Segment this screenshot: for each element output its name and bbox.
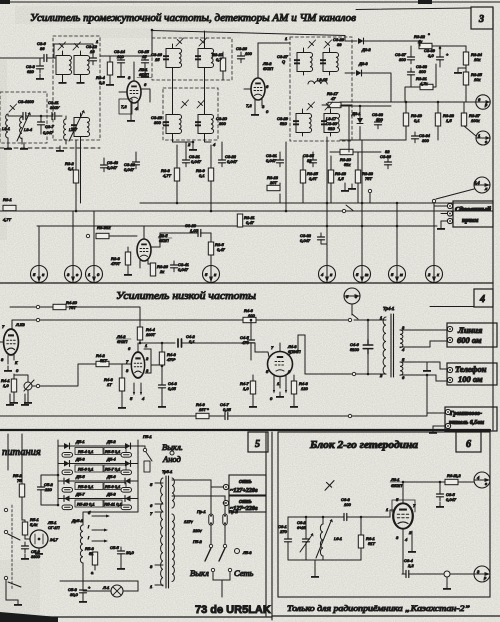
transformer right wires (172, 480, 225, 514)
wire (40, 364, 96, 386)
svg-text:0,05: 0,05 (168, 386, 177, 391)
svg-text:24,7: 24,7 (49, 537, 59, 542)
svg-text:С5-5: С5-5 (110, 545, 119, 550)
resistor R4-5 (159, 352, 164, 365)
capacitor C6-4 (402, 571, 413, 578)
svg-text:l: l (88, 524, 89, 529)
wire (411, 41, 466, 53)
resistor R4-6 (243, 317, 256, 322)
connector 4п (319, 266, 336, 283)
resistor oval (62, 470, 73, 475)
wire AM row (8, 114, 62, 144)
svg-text:1: 1 (285, 36, 287, 41)
resistor oval (62, 505, 73, 510)
tube pins (140, 226, 160, 268)
svg-text:0,1: 0,1 (414, 118, 420, 123)
bottom line (272, 615, 500, 617)
FM det can dashed box (290, 37, 352, 141)
svg-text:0,47: 0,47 (217, 247, 226, 252)
svg-text:10к: 10к (474, 77, 481, 82)
resistor R3-22 (419, 43, 432, 48)
svg-text:82: 82 (385, 149, 390, 154)
svg-text:ритель 6,5ом: ритель 6,5ом (448, 420, 484, 426)
tube V7 Л6-1 6Ж2П (393, 503, 413, 528)
svg-text:75: 75 (17, 478, 22, 483)
resistor R5-2 (19, 484, 24, 497)
wire (41, 475, 58, 505)
potentiometer (24, 382, 32, 390)
svg-text:300: 300 (219, 121, 226, 126)
connector 10 (86, 266, 103, 283)
svg-text:1: 1 (96, 39, 98, 44)
wire (256, 319, 348, 321)
resistor oval (121, 505, 132, 510)
connector 4г (474, 472, 490, 488)
tank L3-9 (163, 44, 182, 71)
svg-text:6+25: 6+25 (297, 525, 307, 530)
svg-text:1Т: 1Т (107, 382, 112, 387)
wire (32, 385, 36, 387)
svg-text:~127+220в: ~127+220в (230, 488, 258, 494)
svg-text:Д5-4: Д5-4 (106, 457, 116, 462)
wire (209, 415, 222, 417)
connector 5,4л (474, 177, 490, 193)
wire (364, 41, 421, 48)
svg-text:Усилитель низкой частоты: Усилитель низкой частоты (116, 291, 256, 302)
resistor R5-6 box (75, 465, 103, 472)
contact (432, 199, 435, 202)
svg-text:0,047: 0,047 (124, 167, 135, 172)
wire (83, 512, 138, 581)
grid bus (288, 516, 341, 518)
capacitor C5-2 (38, 483, 45, 494)
svg-text:300: 300 (419, 69, 426, 74)
capacitor C3-24 (238, 52, 245, 63)
tube V3 Л3-5 (137, 239, 151, 261)
resistor R3-26 (150, 263, 155, 276)
contact (352, 372, 355, 375)
cathode wire (403, 529, 412, 574)
bus y211 (0, 210, 493, 212)
IF can 3 dashed box (163, 88, 218, 140)
svg-text:Усилитель промежуточной частот: Усилитель промежуточной частоты, детекто… (30, 13, 356, 24)
svg-text:С3-36: С3-36 (380, 154, 392, 159)
capacitor C3-37 (408, 53, 415, 64)
svg-text:0,1: 0,1 (199, 173, 205, 178)
svg-text:R5-4 0,1: R5-4 0,1 (78, 449, 93, 454)
svg-text:0,047: 0,047 (227, 159, 238, 164)
svg-text:4,7Т: 4,7Т (163, 173, 172, 178)
secondary wires (400, 330, 447, 381)
svg-text:Телефон: Телефон (455, 364, 487, 374)
wire (352, 413, 445, 428)
row3 wire (58, 480, 138, 482)
svg-text:сеть: сеть (239, 499, 252, 505)
heater box 7,2 (119, 99, 132, 114)
svg-text:300: 300 (399, 57, 406, 62)
page box 4 (474, 289, 493, 307)
coil L3-7 (64, 119, 66, 140)
capacitor C3-31 (277, 156, 284, 167)
taps (155, 483, 163, 585)
resistor R4-1 (11, 379, 16, 392)
svg-text:3,6Т: 3,6Т (309, 176, 318, 181)
svg-text:1: 1 (88, 272, 90, 277)
box Линия 600ом (447, 323, 497, 347)
box сеть 127+220в (229, 475, 266, 495)
svg-text:R5-7 0,1: R5-7 0,1 (105, 467, 120, 472)
ground (77, 78, 85, 84)
wire verticals (280, 106, 397, 266)
wire (51, 57, 56, 59)
resistor R6-1 (358, 535, 363, 548)
tube pins (134, 343, 162, 394)
lamp Л5-3 (235, 549, 240, 554)
ground (426, 362, 428, 366)
svg-text:прием: прием (462, 218, 478, 224)
connector 2к (426, 266, 443, 283)
svg-text:Д5-5: Д5-5 (75, 474, 85, 479)
svg-text:0,7: 0,7 (216, 57, 222, 62)
resistor R3-11 (237, 214, 242, 227)
svg-text:Выкл.: Выкл. (162, 442, 183, 452)
svg-text:Пр-1: Пр-1 (197, 509, 206, 514)
svg-text:Анод: Анод (162, 454, 182, 464)
capacitor C3-40 (101, 161, 108, 172)
wire (109, 56, 111, 80)
svg-text:Д5-1: Д5-1 (75, 439, 85, 444)
svg-text:1,00: 1,00 (190, 228, 199, 233)
row1 wire (58, 445, 138, 447)
tube Л5-1 СГ-1П (30, 530, 48, 548)
svg-text:470Т: 470Т (111, 261, 121, 266)
wire (330, 151, 381, 153)
wire to speaker (426, 374, 429, 377)
bottom line (0, 616, 272, 618)
svg-text:0,25: 0,25 (223, 407, 232, 412)
resistor oval (121, 453, 132, 458)
ground (10, 398, 18, 404)
lamp Л-1 (111, 585, 123, 597)
page box 6 (456, 432, 481, 452)
svg-text:0,047: 0,047 (43, 130, 54, 135)
tube V1 Л3-1 6К4П (127, 81, 141, 103)
ground (158, 402, 166, 408)
right border (265, 432, 267, 616)
resistor R4-10 (40, 306, 53, 308)
resistor R5-9 box (104, 483, 126, 490)
svg-text:Линия: Линия (457, 325, 483, 335)
svg-text:с: с (485, 139, 487, 144)
resistor R5-10 box (75, 500, 103, 507)
ground (106, 80, 114, 86)
wire (222, 52, 224, 80)
svg-text:Выкл: Выкл (190, 568, 209, 578)
switch levers (205, 548, 225, 561)
svg-text:220: 220 (44, 487, 52, 492)
capacitor C3-32 (318, 233, 325, 244)
ground (21, 554, 29, 560)
bus (340, 101, 476, 103)
resistor R3-1 (3, 205, 16, 210)
resistor R3-23 (355, 170, 360, 183)
svg-text:470*: 470* (167, 357, 176, 362)
diode Д3-1 (357, 118, 363, 124)
bus y581 (60, 580, 138, 582)
resistor R3-20 (340, 149, 353, 154)
section separator (0, 429, 490, 431)
wire (362, 73, 392, 102)
svg-text:100: 100 (344, 502, 351, 507)
svg-text:510: 510 (328, 126, 335, 131)
svg-text:0,047: 0,047 (266, 158, 277, 163)
svg-text:R5-11 0,1: R5-11 0,1 (105, 502, 122, 507)
svg-text:1,0: 1,0 (243, 386, 249, 391)
wire (403, 573, 474, 575)
contact (348, 414, 351, 417)
contact R3-7 (86, 234, 89, 237)
capacitor C4-3 (159, 381, 166, 392)
IF can 2 dashed box (152, 38, 232, 80)
svg-text:Л5-3: Л5-3 (242, 550, 252, 555)
svg-text:10к: 10к (474, 57, 481, 62)
diode Д5-6 (125, 478, 131, 484)
svg-text:0,1: 0,1 (189, 339, 195, 344)
resistor R3-13 (267, 185, 280, 190)
wire (161, 343, 163, 383)
tank L3-5 (56, 51, 72, 78)
capacitor C3-14 (118, 56, 125, 67)
resistor R6-2 (445, 479, 458, 484)
wire (464, 102, 476, 136)
wire (340, 139, 406, 141)
ground (429, 428, 437, 434)
svg-text:Д3-2: Д3-2 (361, 47, 371, 52)
svg-text:100: 100 (248, 313, 255, 318)
row4 wire (58, 498, 138, 500)
svg-text:1: 1 (150, 584, 152, 589)
svg-text:15Т *: 15Т * (199, 407, 209, 412)
tank L3-8 (71, 113, 90, 140)
svg-text:4: 4 (479, 294, 485, 305)
capacitor C3-11 (48, 113, 59, 120)
svg-text:15: 15 (155, 57, 160, 62)
svg-text:~127~220в: ~127~220в (230, 506, 258, 512)
connector 1с (476, 131, 490, 145)
tube pins (0, 342, 14, 364)
svg-text:СГ-1П: СГ-1П (48, 525, 60, 530)
box Телефон 100ом (447, 363, 497, 385)
capacitor C6-2 variable (303, 535, 310, 546)
capacitor C3-4 (19, 113, 30, 120)
resistor oval (121, 488, 132, 493)
svg-text:300: 300 (422, 138, 429, 143)
fuse Пр-2 (223, 514, 227, 525)
svg-text:R3-1: R3-1 (3, 197, 12, 202)
svg-text:0,2: 0,2 (99, 80, 105, 85)
frame (278, 432, 490, 597)
wire (434, 206, 447, 224)
bus y226 (37, 225, 437, 227)
resistor R4-3 (119, 378, 124, 391)
capacitor C3-7 (38, 118, 45, 129)
resistor oval (62, 488, 73, 493)
svg-text:100 ом: 100 ом (458, 374, 483, 384)
terminal (447, 218, 452, 223)
wire (437, 102, 439, 140)
box сеть 127-220в (229, 496, 266, 512)
resistor R5-5 box (104, 448, 126, 455)
capacitor C3-21 (183, 156, 190, 167)
heater arrows (133, 392, 135, 396)
svg-text:5,4: 5,4 (474, 180, 480, 185)
wire (293, 375, 295, 402)
svg-text:Л-1: Л-1 (102, 585, 109, 590)
diode Д5-5 (64, 478, 70, 484)
svg-text:470: 470 (242, 340, 249, 345)
ground (117, 72, 125, 78)
contact (368, 189, 371, 192)
tank L3-14 (320, 48, 339, 75)
wire (21, 497, 23, 520)
svg-text:0,047: 0,047 (191, 159, 202, 164)
tube pins (244, 43, 262, 110)
svg-text:Д5-7: Д5-7 (75, 492, 85, 497)
wire (288, 510, 395, 535)
resistor R3-5 (208, 242, 213, 255)
ground (251, 110, 259, 116)
resistor R3-18 (328, 170, 333, 183)
svg-text:l: l (88, 535, 89, 540)
svg-text:0,1: 0,1 (68, 166, 74, 171)
resistor R5-4 box (75, 448, 103, 455)
svg-text:г: г (485, 481, 487, 486)
svg-text:R5-9 0,1: R5-9 0,1 (105, 484, 120, 489)
svg-text:L3-15: L3-15 (317, 77, 328, 82)
tank L3-10 (195, 44, 214, 71)
capacitor C4-2 (178, 339, 182, 347)
wire (405, 102, 407, 140)
left wires (8, 434, 22, 484)
svg-text:Др5-1: Др5-1 (71, 518, 83, 523)
ground (437, 224, 445, 230)
ground tube (38, 548, 40, 553)
wire (173, 31, 205, 80)
wire (127, 247, 129, 270)
ground (436, 502, 444, 508)
svg-text:300: 300 (154, 120, 161, 125)
adjustment (325, 481, 334, 491)
svg-text:51к: 51к (104, 225, 111, 230)
svg-text:Q: Q (282, 59, 285, 64)
coil L3-3 (6, 114, 8, 138)
capacitor C3-41 (171, 261, 178, 272)
capacitor C6-5 (437, 490, 444, 501)
resistor R3-8 (174, 168, 179, 181)
svg-text:82: 82 (307, 158, 312, 163)
svg-text:6Х2П: 6Х2П (263, 66, 273, 71)
resistor R5-11 box (104, 500, 122, 507)
page box 5 (248, 432, 268, 452)
anode wire (305, 335, 352, 374)
diode Д5-7 (64, 496, 70, 502)
top corner marks (0, 0, 10, 4)
svg-text:2,2: 2,2 (407, 563, 414, 568)
svg-text:Д5-3: Д5-3 (75, 457, 85, 462)
svg-text:6: 6 (466, 439, 471, 450)
capacitor C5-5 (118, 547, 125, 558)
svg-text:R5-10 0,1: R5-10 0,1 (77, 502, 95, 507)
stems (39, 211, 94, 266)
diode Д5-4 (125, 461, 131, 467)
wire verticals mid (104, 137, 222, 211)
wire to det (258, 42, 290, 44)
capacitor C3-38 (408, 68, 415, 79)
svg-text:1,5: 1,5 (446, 118, 452, 123)
svg-text:П5-1: П5-1 (143, 434, 152, 439)
contacts lower (211, 568, 214, 571)
wire (252, 375, 254, 402)
svg-text:6Ж2П: 6Ж2П (391, 483, 402, 488)
capacitor C6-3 (340, 514, 351, 521)
capacitor C3-13 (133, 158, 140, 169)
svg-text:Д5-8: Д5-8 (106, 492, 116, 497)
terminal (447, 203, 452, 208)
connector 3е (65, 266, 82, 283)
svg-text:4,7к: 4,7к (420, 81, 429, 86)
right border (492, 8, 494, 430)
resistor R5-3 (92, 552, 97, 565)
switch contact (348, 318, 351, 321)
svg-text:м: м (400, 272, 403, 277)
resistor R3-24 (463, 52, 468, 65)
svg-text:86: 86 (40, 46, 45, 51)
svg-text:1: 1 (386, 507, 388, 512)
svg-text:6Н2П: 6Н2П (117, 339, 127, 344)
svg-text:300У: 300У (50, 105, 60, 110)
wire (434, 203, 437, 266)
coil L3-15 (308, 81, 327, 84)
svg-text:0,47: 0,47 (246, 220, 255, 225)
tube V2 Л3-2 6Х2П (251, 78, 265, 100)
ground (21, 400, 29, 406)
ground (249, 402, 257, 408)
resistor R3-27 (461, 113, 466, 126)
svg-text:300: 300 (376, 117, 383, 122)
wire (66, 307, 140, 327)
tank L3-13 (294, 48, 313, 75)
svg-text:Тр5-1: Тр5-1 (162, 469, 172, 474)
ground (141, 72, 149, 78)
tank L3-11 (163, 110, 182, 137)
resistor R4-4 (137, 327, 142, 340)
svg-text:С3-7: С3-7 (45, 124, 54, 129)
ground (118, 403, 126, 409)
connector 5н (203, 266, 220, 283)
resistor R3-25 (463, 72, 468, 85)
capacitor C3-35 (310, 156, 317, 167)
resistor R3-9 (208, 168, 213, 181)
wire (100, 30, 152, 72)
wire (351, 304, 353, 315)
capacitor C4-5 (248, 336, 255, 347)
svg-text:R5-6 0,1: R5-6 0,1 (78, 467, 93, 472)
resistor R3-17 (328, 102, 341, 107)
ground (20, 144, 28, 150)
ground (36, 74, 44, 80)
capacitor C3-15 (142, 56, 149, 67)
tank L3-17 (321, 109, 340, 136)
